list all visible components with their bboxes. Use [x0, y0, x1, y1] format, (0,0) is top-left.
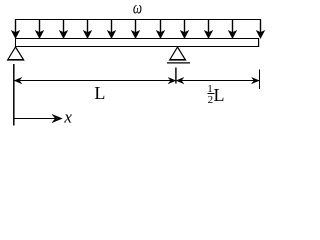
- dimension line half L: [176, 80, 260, 82]
- left pin support base line: [7, 59, 24, 61]
- load arrow 2: [36, 20, 44, 39]
- beam bottom line: [15, 46, 259, 48]
- load arrow 7: [157, 20, 165, 39]
- load arrow 8: [181, 20, 189, 39]
- left extension line (long vertical): [13, 64, 15, 126]
- load arrow 6: [132, 20, 140, 39]
- middle pin support: [170, 47, 186, 60]
- load arrow 1: [12, 20, 20, 39]
- dim L right arrowhead: [168, 78, 176, 84]
- left pin support: [8, 47, 24, 60]
- distributed load top line: [15, 19, 261, 21]
- load arrow 9: [205, 20, 213, 39]
- dim halfL right arrowhead: [252, 78, 260, 84]
- svg-text:L: L: [94, 83, 105, 103]
- beam top line: [15, 38, 259, 40]
- load arrow 10: [229, 20, 237, 39]
- x axis arrowhead: [52, 114, 62, 122]
- x axis arrow line: [14, 118, 56, 120]
- svg-text:L: L: [214, 85, 225, 105]
- svg-text:2: 2: [208, 94, 214, 106]
- beam right end cap: [258, 38, 260, 47]
- dim halfL left arrowhead: [176, 78, 184, 84]
- svg-text:ω: ω: [133, 0, 142, 18]
- load arrow 4: [84, 20, 92, 39]
- load arrow 11: [257, 20, 265, 39]
- load arrow 5: [108, 20, 116, 39]
- dim L left arrowhead: [14, 78, 21, 84]
- right extension line: [259, 70, 261, 90]
- ground line under middle support: [167, 62, 190, 64]
- dimension line L: [14, 80, 176, 82]
- middle dimension tick: [175, 68, 177, 84]
- beam left end cap: [15, 38, 17, 47]
- load arrow 3: [60, 20, 68, 39]
- svg-text:x: x: [63, 108, 72, 127]
- middle pin support base line: [169, 59, 185, 61]
- fraction bar of 1/2: [207, 93, 214, 95]
